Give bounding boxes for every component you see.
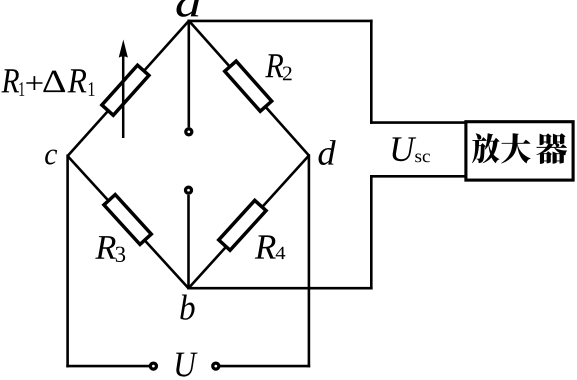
node label b: [180, 294, 194, 319]
label R4: subscript 4: [276, 247, 286, 259]
arrow through R1 (variable resistor): [122, 55, 125, 138]
resistor R2 body: [225, 61, 272, 111]
label R2: R: [265, 54, 283, 77]
wire: right vertical upper segment: [370, 20, 373, 124]
label R1+dR1: second R: [68, 69, 87, 92]
terminal circle bottom-left (supply U): [150, 363, 156, 369]
wire: right vertical lower segment: [370, 175, 373, 290]
wire: node a down to galvanometer terminal: [188, 20, 191, 128]
wire: galvanometer terminal down to node b: [187, 195, 190, 290]
wire: diagonal c-b (R3 arm): [68, 156, 189, 288]
label R1+dR1: subscript 1: [19, 82, 24, 96]
node label a: [177, 0, 200, 17]
wire: node b to right vertical: [189, 287, 373, 290]
label Usc: subscript c: [423, 154, 430, 163]
wire: node a to top-right corner: [189, 20, 373, 23]
label R4: R: [255, 235, 276, 258]
wire: into amplifier bottom input: [370, 175, 465, 178]
amplifier label char 大: [501, 133, 530, 163]
amplifier label char 放: [472, 133, 500, 163]
terminal circle bottom-right (supply U): [213, 363, 219, 369]
amplifier label char 器: [536, 133, 567, 164]
node label d: [319, 140, 336, 165]
resistor R1 body (variable): [102, 65, 149, 115]
resistor R3 body: [104, 195, 151, 245]
label R1+dR1: second subscript 1: [89, 82, 95, 96]
label R1+dR1: Delta: [43, 71, 65, 92]
label Usc: U: [392, 137, 416, 161]
label R3: subscript 3: [116, 247, 125, 262]
wire: node c down to supply rail: [66, 155, 69, 368]
label R1+dR1: R: [1, 69, 19, 92]
node label c: [45, 150, 57, 165]
wire: diagonal d-b (R4 arm): [189, 156, 309, 289]
wire: diagonal a-c (R1 arm): [68, 21, 189, 156]
wire: bottom rail left to terminal: [66, 365, 149, 368]
label R2: subscript 2: [283, 67, 292, 81]
label R3: R: [95, 236, 115, 259]
resistor R4 body: [219, 200, 266, 250]
terminal circle lower (to node b): [186, 187, 192, 193]
wire: into amplifier top input: [370, 121, 465, 124]
amplifier box: [466, 122, 573, 180]
label Usc: subscript s: [415, 154, 421, 163]
wire: bottom rail terminal to node d leg: [220, 365, 310, 368]
wire: node d down to supply rail: [308, 154, 311, 367]
terminal circle upper (from node a): [186, 129, 192, 135]
label U (supply): [176, 353, 198, 377]
wire: diagonal a-d (R2 arm): [189, 21, 309, 156]
label R1+dR1: plus sign: [26, 76, 42, 90]
